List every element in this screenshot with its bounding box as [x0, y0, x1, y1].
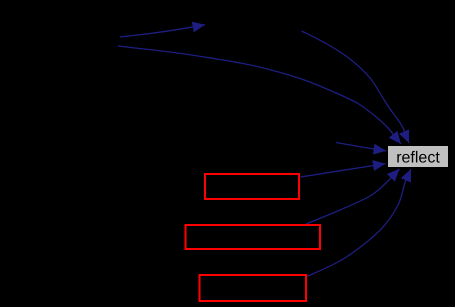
wire: edge caller1 -> top node — [120, 25, 205, 37]
wire: edge caller1 -> reflect (long top curve) — [118, 46, 401, 144]
wire: edge top node -> reflect — [302, 31, 410, 143]
node R3 (truncated caller, red box) — [200, 275, 307, 301]
node R1 (truncated caller, red box) — [205, 174, 299, 199]
node R2 (truncated caller, red box) — [186, 225, 321, 249]
wire: edge red node 2 -> reflect (curve) — [306, 169, 400, 224]
wire: edge red node 1 -> reflect — [301, 164, 386, 177]
node reflect (current node, grey) — [388, 146, 449, 168]
wire: edge red node 3 -> reflect (big curve) — [307, 169, 411, 277]
wire: edge hidden mid node -> reflect — [336, 143, 386, 151]
svg-text:reflect: reflect — [396, 149, 440, 166]
